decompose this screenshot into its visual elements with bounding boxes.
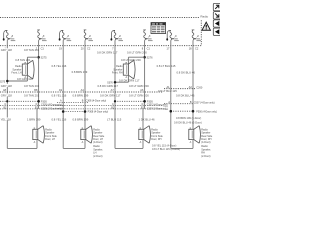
svg-text:C305 (2-Door only): C305 (2-Door only) — [41, 107, 62, 110]
svg-text:0.8 LT GRN 200: 0.8 LT GRN 200 — [127, 51, 147, 55]
twisted-pair symbol right wire pair 4 — [192, 29, 195, 31]
svg-text:S276: S276 — [147, 56, 154, 60]
svg-text:P500 (4-Door only): P500 (4-Door only) — [196, 110, 217, 113]
wire A stub door speaker 1 — [36, 140, 38, 149]
grommet P306 dashed line pair3 — [115, 100, 145, 102]
svg-text:0.8 LT GRN 200: 0.8 LT GRN 200 — [129, 84, 149, 88]
wire left circuit pair 3 vertical — [114, 40, 116, 148]
grommet P305 dot pair1 — [37, 100, 40, 103]
svg-text:Front, RH: Front, RH — [112, 71, 123, 74]
svg-text:0.8 TAN 201: 0.8 TAN 201 — [24, 93, 40, 97]
speaker door 1: Radio Speaker Front Side Door, LH — [33, 129, 38, 139]
svg-text:0.8 DK GRN 117: 0.8 DK GRN 117 — [98, 84, 119, 88]
speaker door 3: Radio Speaker Front Side Door, RH — [139, 129, 144, 139]
grommet dot left pair3 — [114, 100, 116, 102]
wire label 0.8 GRY 118 — [0, 84, 12, 87]
svg-text:C2: C2 — [195, 46, 199, 50]
wire branch to speaker B terminal — [128, 56, 144, 58]
wire label 0.8 YEL 118 — [0, 118, 11, 121]
toolbar button 4 (next) — [213, 28, 222, 35]
svg-text:C1: C1 — [147, 46, 151, 50]
svg-text:0.8 BRN 199: 0.8 BRN 199 — [73, 93, 89, 97]
svg-text:0.8 YEL 115 (4-Door): 0.8 YEL 115 (4-Door) — [152, 143, 176, 147]
svg-text:0.8 BRN 199: 0.8 BRN 199 — [73, 117, 89, 121]
svg-text:C308 (4-Door only): C308 (4-Door only) — [86, 99, 107, 102]
wire label 0.8 GRY 118 — [0, 48, 12, 51]
wire branch to speaker B terminal — [27, 56, 38, 58]
pin B label door speaker 2 — [81, 127, 84, 130]
wire bottom return segment pair 3 — [115, 147, 143, 149]
svg-text:0.8 LT BLU 115: 0.8 LT BLU 115 — [157, 64, 176, 68]
svg-text:0.8 DK BLU 46: 0.8 DK BLU 46 — [176, 93, 195, 97]
toolbar button 2 (page arrow down) — [213, 12, 222, 19]
wire right circuit pair 4 vertical upper — [192, 40, 194, 109]
warning triangle icon — [202, 22, 210, 30]
pin B label door speaker 1 — [33, 127, 36, 130]
svg-text:0.8 LT GRN 200: 0.8 LT GRN 200 — [129, 93, 149, 97]
speaker door 4: Radio Speaker Rear Side Door, RH — [189, 129, 194, 139]
wire right circuit pair 2 vertical lower — [84, 109, 86, 129]
wire right circuit pair 1 vertical upper — [38, 40, 40, 109]
wire left circuit pair 4 vertical — [170, 40, 172, 148]
svg-text:0.8 YEL 116: 0.8 YEL 116 — [52, 64, 67, 68]
connector C507 dashed line pair4 — [164, 103, 193, 105]
component U1 Radio dashed box top edge — [0, 17, 200, 19]
svg-text:0.8 LT BLU 115: 0.8 LT BLU 115 — [158, 89, 177, 93]
svg-text:0.8 TAN 201: 0.8 TAN 201 — [24, 84, 40, 88]
svg-text:(2-Door): (2-Door) — [201, 155, 210, 158]
connector C306 dashed line (2-door) — [0, 108, 163, 110]
svg-text:(4-Door): (4-Door) — [93, 141, 102, 144]
legend table block inside radio — [151, 23, 166, 34]
svg-text:0.8 DK GRN 117: 0.8 DK GRN 117 — [100, 93, 121, 97]
connector C260 dashed line (rear) — [164, 88, 195, 90]
connector C2xx instrument panel dashed line — [0, 91, 163, 93]
speaker door 2: Radio Speaker Rear Side Door, LH — [81, 129, 86, 139]
wire right circuit pair 3 vertical lower — [142, 109, 144, 129]
svg-text:0.8 LT BLU 115 (2-Door): 0.8 LT BLU 115 (2-Door) — [152, 147, 180, 151]
svg-text:0.8 TAN 201: 0.8 TAN 201 — [15, 58, 31, 62]
svg-text:C: C — [4, 103, 6, 106]
svg-text:C: C — [112, 103, 114, 106]
twisted-pair symbol left wire pair 1 — [4, 30, 8, 38]
svg-text:C305 (4-Door only): C305 (4-Door only) — [41, 104, 62, 107]
svg-text:C260: C260 — [196, 85, 203, 89]
grommet P305 dashed line pair1 — [0, 100, 39, 102]
grommet dot left pair4 — [170, 110, 173, 113]
twisted-pair symbol right wire pair 2 — [84, 29, 87, 31]
grommet dot left pair2 — [62, 110, 65, 113]
wire A stub door speaker 2 — [84, 140, 86, 149]
svg-text:0.8 BRN 199: 0.8 BRN 199 — [72, 70, 88, 74]
grommet P500 dot pair4 — [192, 110, 195, 113]
twisted-pair symbol left wire pair 4 — [167, 30, 171, 38]
splice S375 junction dot — [6, 80, 9, 83]
connector C305 dashed line (4-door) — [0, 104, 163, 106]
wire branch from A terminal to splice — [7, 80, 27, 82]
twisted-pair symbol right wire pair 3 — [143, 29, 146, 31]
svg-text:Door, LH: Door, LH — [45, 138, 55, 141]
svg-text:1 DK BLU 46: 1 DK BLU 46 — [139, 117, 156, 121]
wire right circuit pair 4 vertical lower — [192, 109, 194, 129]
wire left circuit pair 1 vertical — [6, 40, 8, 148]
wire A stub door speaker 3 — [142, 140, 144, 149]
svg-text:0.8 GRY 118: 0.8 GRY 118 — [0, 93, 12, 97]
wire label 0.8 GRY 118 — [0, 94, 12, 97]
wire A stub door speaker 4 — [192, 140, 194, 149]
component U1 Radio dashed box bottom edge / connector face — [0, 45, 202, 47]
svg-text:Door: Door — [164, 108, 169, 111]
twisted-pair symbol left wire pair 2 — [60, 30, 64, 38]
svg-text:Rear: Rear — [164, 105, 169, 108]
splice S376 junction dot — [114, 81, 117, 84]
grommet P500 dashed line pair4 — [171, 110, 193, 112]
svg-text:1 BRN 199: 1 BRN 199 — [27, 117, 41, 121]
svg-text:D: D — [36, 103, 38, 106]
svg-text:LT BLU 115: LT BLU 115 — [107, 117, 122, 121]
svg-text:(2-Door): (2-Door) — [93, 155, 102, 158]
svg-text:S375: S375 — [0, 81, 6, 84]
svg-text:Door, RH: Door, RH — [151, 138, 161, 141]
svg-text:0.8 DK BLU 46 (2-Door): 0.8 DK BLU 46 (2-Door) — [174, 120, 202, 124]
toolbar button 3 (previous) — [213, 20, 222, 27]
twisted-pair symbol left wire pair 3 — [111, 30, 115, 38]
svg-text:P308 (4-Door only): P308 (4-Door only) — [88, 111, 109, 114]
connector C308 dashed line pair2 — [57, 101, 89, 103]
wire bottom return segment pair 4 — [171, 147, 193, 149]
toolbar button 1 (page arrow up) — [213, 3, 222, 10]
speaker front Front, RH — [123, 64, 128, 75]
svg-text:(4-Door): (4-Door) — [201, 141, 210, 144]
grommet P306 dot pair3 — [143, 100, 146, 103]
svg-text:C2: C2 — [87, 46, 91, 50]
component U1 Radio dashed box right edge — [200, 20, 202, 45]
wire branch from A terminal to splice — [115, 81, 128, 83]
grommet P308 dot pair2 — [84, 110, 87, 113]
svg-text:0.8 TAN 201: 0.8 TAN 201 — [24, 48, 40, 52]
wire bottom return segment pair 2 — [63, 147, 85, 149]
svg-text:0.8 YEL 116: 0.8 YEL 116 — [52, 117, 67, 121]
grommet dot left pair1 — [6, 100, 8, 102]
wire bottom return segment pair 1 — [7, 147, 37, 149]
twisted-pair symbol right wire pair 1 — [37, 29, 40, 31]
speaker front Front, LH — [22, 64, 27, 75]
svg-text:Front, LH: Front, LH — [11, 71, 21, 74]
pin B label door speaker 4 — [189, 127, 192, 130]
splice S275 junction dot — [37, 56, 40, 59]
wire right circuit pair 3 vertical upper — [144, 40, 146, 109]
svg-text:C507 (4-Door only): C507 (4-Door only) — [194, 101, 215, 104]
svg-text:0.8 DK BLU 46: 0.8 DK BLU 46 — [177, 70, 196, 74]
pin B label door speaker 3 — [139, 127, 142, 130]
svg-text:S275: S275 — [41, 56, 48, 60]
grommet P308 dashed line pair2 — [63, 111, 85, 113]
svg-text:0.8 DK GRN 117: 0.8 DK GRN 117 — [97, 51, 118, 55]
svg-text:0.8 BRN 199 (4-Door): 0.8 BRN 199 (4-Door) — [176, 116, 201, 120]
splice S276 junction dot — [143, 56, 146, 59]
svg-text:0.8 GRY 118: 0.8 GRY 118 — [0, 48, 12, 52]
wire A terminal stub — [127, 75, 129, 82]
wire right circuit pair 2 vertical upper — [84, 40, 86, 109]
wire left circuit pair 2 vertical — [62, 40, 64, 148]
svg-text:0.8 GRY 118: 0.8 GRY 118 — [0, 84, 12, 88]
svg-text:0.8 YEL 116: 0.8 YEL 116 — [52, 93, 67, 97]
svg-text:0.8 YEL 118: 0.8 YEL 118 — [0, 117, 11, 121]
svg-text:C1: C1 — [41, 46, 45, 50]
wire right circuit pair 1 vertical lower — [36, 109, 38, 129]
wire A terminal stub — [26, 75, 28, 81]
svg-text:0.8 LT GRN 200: 0.8 LT GRN 200 — [121, 58, 141, 62]
svg-text:Radio: Radio — [200, 14, 208, 18]
svg-text:D: D — [142, 103, 144, 106]
